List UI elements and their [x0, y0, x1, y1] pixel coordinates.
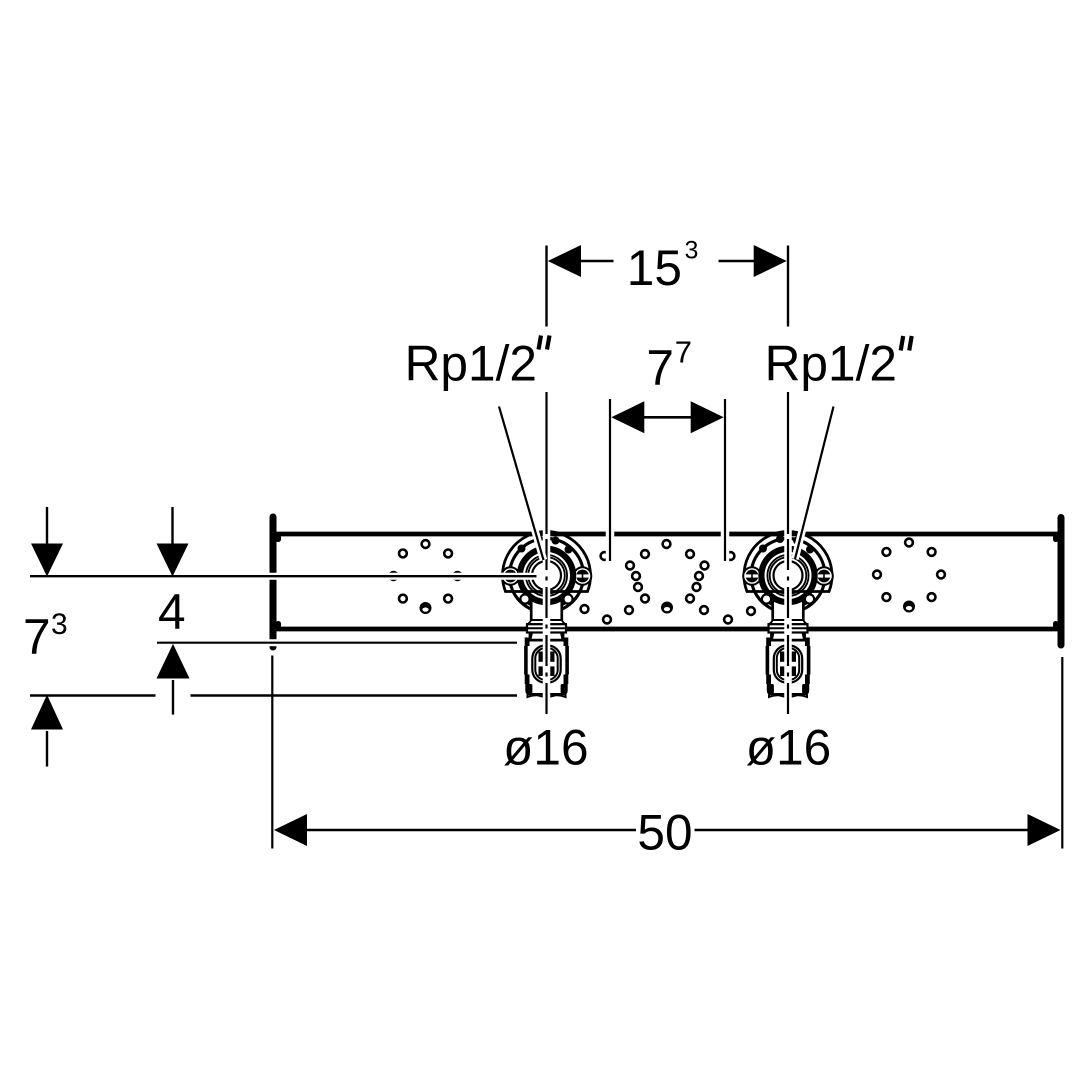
svg-text:4: 4 — [158, 584, 186, 640]
corner fillets — [276, 535, 1059, 629]
dim 7-3 arrow up — [31, 695, 63, 767]
svg-text:7: 7 — [646, 340, 674, 396]
svg-text:50: 50 — [637, 805, 692, 861]
right fitting press connector — [766, 600, 810, 698]
svg-text:Rp1/2: Rp1/2 — [405, 336, 537, 392]
dim 15-3 ticks — [545, 246, 547, 327]
svg-text:3: 3 — [685, 237, 699, 265]
right fitting flange — [743, 532, 833, 613]
hole ring C — [873, 539, 945, 613]
dim 50 extension lines — [271, 656, 273, 849]
hole ring B — [626, 540, 708, 613]
dim 4 arrow up — [156, 644, 191, 715]
reference line C — [30, 692, 517, 699]
svg-text:7: 7 — [23, 609, 51, 665]
right Rp leader diagonal — [795, 407, 834, 560]
left Rp leader diagonal — [499, 407, 544, 561]
rail right end bar — [1058, 518, 1065, 646]
reference line B — [157, 639, 517, 646]
rail left end bar — [270, 517, 277, 647]
svg-text:7: 7 — [675, 335, 692, 370]
rail bottom line — [276, 627, 1058, 632]
rail top line — [276, 532, 1058, 537]
left fitting press connector — [525, 600, 569, 698]
dim 4 arrow down — [157, 507, 189, 577]
dim 7-7 extension line right — [721, 399, 730, 561]
svg-text:3: 3 — [51, 608, 68, 641]
svg-text:ø16: ø16 — [503, 720, 588, 776]
dim 7-7 arrows and line — [611, 401, 723, 433]
svg-text:ø16: ø16 — [746, 720, 831, 776]
dim 50 line and arrows — [274, 814, 1061, 846]
right fitting centreline — [784, 392, 792, 720]
dim 7-7 extension line left — [606, 399, 615, 561]
leader line A to fitting centre — [30, 573, 537, 580]
svg-text:15: 15 — [627, 240, 682, 296]
svg-text:Rp1/2: Rp1/2 — [765, 336, 897, 392]
left fitting centreline — [543, 392, 551, 720]
dim 15-3 arrows and line — [548, 245, 787, 277]
dim 7-3 arrow down — [31, 507, 63, 577]
hole ring A — [390, 540, 462, 614]
left fitting flange — [502, 532, 592, 613]
scattered holes — [581, 552, 755, 623]
